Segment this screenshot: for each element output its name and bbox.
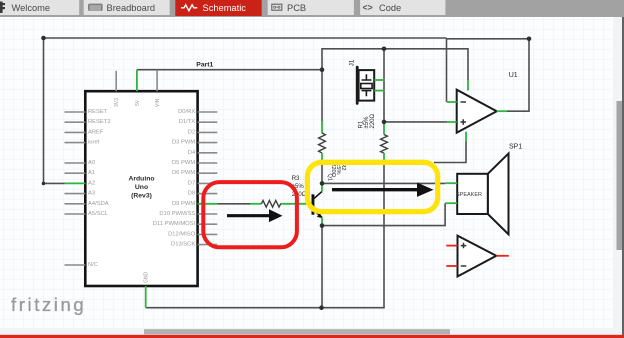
- svg-text:Uno: Uno: [135, 184, 148, 191]
- horizontal scrollbar: [0, 328, 622, 335]
- svg-text:VIN: VIN: [155, 98, 161, 107]
- wire ground rail: [146, 307, 385, 309]
- svg-text:ioref: ioref: [88, 140, 100, 146]
- wire J1 vertical: [383, 49, 385, 123]
- svg-text:PCB: PCB: [287, 3, 306, 13]
- svg-text:A4/SDA: A4/SDA: [88, 201, 109, 207]
- svg-text:GND: GND: [144, 272, 150, 284]
- svg-text:D10 PWM/SS: D10 PWM/SS: [159, 211, 195, 217]
- resistor R1 (vertical, x=384): [381, 123, 388, 162]
- svg-text:220Ω: 220Ω: [370, 113, 376, 128]
- pin labels right: [153, 109, 196, 248]
- svg-text:RESET: RESET: [88, 109, 108, 115]
- wire minus-input drop: [446, 38, 448, 102]
- svg-text:Schematic: Schematic: [203, 3, 247, 13]
- annotation yellow rounded rect: [307, 162, 437, 211]
- annotation red rounded rect: [203, 182, 297, 247]
- svg-text:Welcome: Welcome: [12, 3, 51, 13]
- svg-text:A1: A1: [88, 170, 95, 176]
- pcb tab: [268, 0, 354, 15]
- svg-text:A5/SCL: A5/SCL: [88, 211, 109, 217]
- wire node to R2 top: [321, 70, 323, 121]
- wire 5V branch up and right: [322, 49, 468, 80]
- junction node dots: [41, 36, 531, 310]
- wire emitter node down: [321, 226, 323, 308]
- svg-text:Arduino: Arduino: [128, 176, 154, 183]
- svg-text:<>: <>: [363, 3, 373, 13]
- wire collector node to speaker pin1: [322, 182, 445, 184]
- svg-text:3V3: 3V3: [114, 98, 120, 107]
- bottom red bar: [0, 335, 624, 338]
- svg-text:SPEAKER: SPEAKER: [456, 192, 482, 198]
- svg-text:R3: R3: [292, 176, 300, 182]
- pin stub 5V (green): [136, 70, 138, 92]
- resistor R2 (vertical, x=322): [319, 121, 326, 161]
- welcome tab: [0, 0, 79, 15]
- svg-text:D13/SCK: D13/SCK: [171, 242, 195, 248]
- resistor R3 (horizontal): [250, 201, 281, 208]
- svg-text:Part1: Part1: [196, 61, 213, 68]
- wire output to top rail: [507, 39, 529, 111]
- label R2: [330, 163, 346, 177]
- pin stub A2 (green): [65, 182, 86, 184]
- svg-text:D1/TX: D1/TX: [179, 119, 196, 125]
- wire R2 bottom to collector node: [321, 161, 323, 184]
- svg-text:fritzing: fritzing: [11, 294, 86, 315]
- pin stub D9 (green): [198, 203, 218, 205]
- code tab: [360, 0, 445, 15]
- top pin stubs 3V3 / VIN: [116, 71, 157, 91]
- wire R1 bottom down to ground rail: [383, 161, 385, 308]
- svg-text:D7: D7: [188, 180, 195, 186]
- pin labels left: [88, 109, 111, 268]
- svg-text:D4: D4: [188, 150, 196, 156]
- svg-text:N/C: N/C: [88, 262, 98, 268]
- svg-text:D5 PWM: D5 PWM: [172, 160, 195, 166]
- left pin stubs: [65, 112, 86, 265]
- wire U1 V- down and left: [434, 142, 466, 163]
- wire emitter rail to speaker pin2: [322, 203, 445, 225]
- tab bar background: [0, 0, 624, 17]
- vertical scrollbar: [613, 17, 622, 328]
- schematic tab (active): [175, 0, 261, 16]
- crystal J1: [357, 67, 384, 103]
- svg-text:A2: A2: [88, 180, 95, 186]
- wire top rail right jog: [447, 38, 530, 40]
- annotation arrow 2: [332, 183, 434, 197]
- svg-text:A3: A3: [88, 191, 95, 197]
- svg-text:J1: J1: [349, 59, 356, 66]
- svg-text:Code: Code: [379, 3, 401, 13]
- svg-text:D9 PWM: D9 PWM: [172, 201, 195, 207]
- svg-text:AREF: AREF: [88, 129, 104, 135]
- transistor Q1: [280, 183, 323, 225]
- svg-text:D0/RX: D0/RX: [178, 109, 195, 115]
- svg-text:D8: D8: [188, 191, 195, 197]
- pin stub GND (green): [145, 286, 147, 308]
- Arduino Uno U-part: [65, 71, 218, 286]
- svg-text:D3 PWM: D3 PWM: [172, 140, 195, 146]
- speaker SP1: [445, 154, 508, 235]
- label R1: [359, 113, 376, 128]
- wire 5V rail: [137, 69, 322, 71]
- svg-text:D11 PWM/MOSI: D11 PWM/MOSI: [153, 221, 196, 227]
- label R3: [292, 176, 307, 198]
- svg-text:(Rev3): (Rev3): [131, 193, 152, 200]
- svg-text:Breadboard: Breadboard: [107, 3, 156, 13]
- op-amp U1: [447, 80, 507, 141]
- op-amp U2 (unconnected): [446, 236, 509, 277]
- svg-text:U1: U1: [509, 72, 518, 79]
- wire left vertical to A2: [44, 38, 65, 183]
- title: [128, 176, 154, 200]
- right pin stubs: [198, 112, 218, 245]
- annotation arrow 1: [227, 209, 283, 222]
- wire plus input: [384, 121, 447, 123]
- svg-text:D12/MISO: D12/MISO: [168, 231, 196, 237]
- svg-text:SP1: SP1: [509, 144, 522, 151]
- wire top rail: [44, 37, 447, 39]
- svg-text:Q1: Q1: [326, 174, 332, 181]
- svg-text:A0: A0: [88, 160, 95, 166]
- svg-text:D6 PWM: D6 PWM: [172, 170, 195, 176]
- svg-text:D2: D2: [188, 129, 195, 135]
- breadboard tab: [84, 0, 170, 15]
- top pin labels rotated: [114, 98, 161, 107]
- wire D9 to R3: [217, 203, 250, 205]
- svg-text:5V: 5V: [135, 99, 141, 106]
- svg-text:RESET2: RESET2: [88, 119, 111, 125]
